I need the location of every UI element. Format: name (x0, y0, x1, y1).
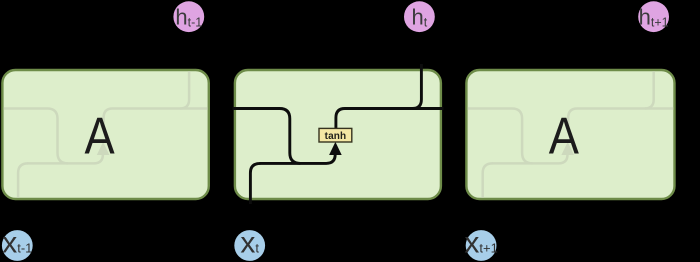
wire h(t) input, faint (464, 109, 533, 164)
wire tanh output, faint (104, 109, 210, 130)
cell A (t+1) body (466, 70, 674, 199)
wire merged into tanh, faint (492, 154, 568, 163)
node h(t-1) circle (173, 1, 204, 32)
svg-text:A: A (85, 108, 116, 166)
arrowhead into tanh U1 (329, 142, 342, 155)
arrowhead into hidden tanh of cell A(t-1), faint (97, 142, 110, 155)
faint recurrent wires inside cell A(t+1) (464, 66, 674, 203)
tanh activation box U1 (319, 128, 352, 142)
cell A (t-1) body (2, 70, 208, 199)
node x(t+1) circle (466, 230, 497, 261)
wire tanh output, faint (568, 109, 674, 130)
wire branch up to h(t+1), faint (645, 66, 654, 109)
wire x(t+1) input, faint (483, 163, 493, 202)
wire branch up to h(t-1), faint (180, 66, 189, 109)
wire branch up to h(t) (412, 64, 421, 109)
node h(t+1) circle (638, 1, 669, 32)
wire merged into tanh, faint (27, 154, 103, 163)
node h(t) circle (404, 1, 435, 32)
wire merged signal to tanh (259, 154, 335, 163)
node x(t-1) circle (2, 230, 33, 261)
svg-text:tanh: tanh (325, 131, 347, 142)
node x(t) circle (234, 230, 265, 261)
wire tanh output to right edge (336, 109, 444, 130)
wire h(t-2) input, faint (0, 109, 68, 164)
faint recurrent wires inside cell A(t-1) (0, 66, 210, 203)
wire x(t-1) input, faint (18, 163, 28, 202)
arrowhead into hidden tanh of cell A(t+1), faint (561, 142, 574, 155)
wire x(t) input into cell A(t) (250, 163, 260, 204)
cell A (t) body (235, 70, 441, 199)
wire h(t-1) input into cell A(t) (233, 109, 301, 164)
svg-text:A: A (549, 108, 580, 166)
